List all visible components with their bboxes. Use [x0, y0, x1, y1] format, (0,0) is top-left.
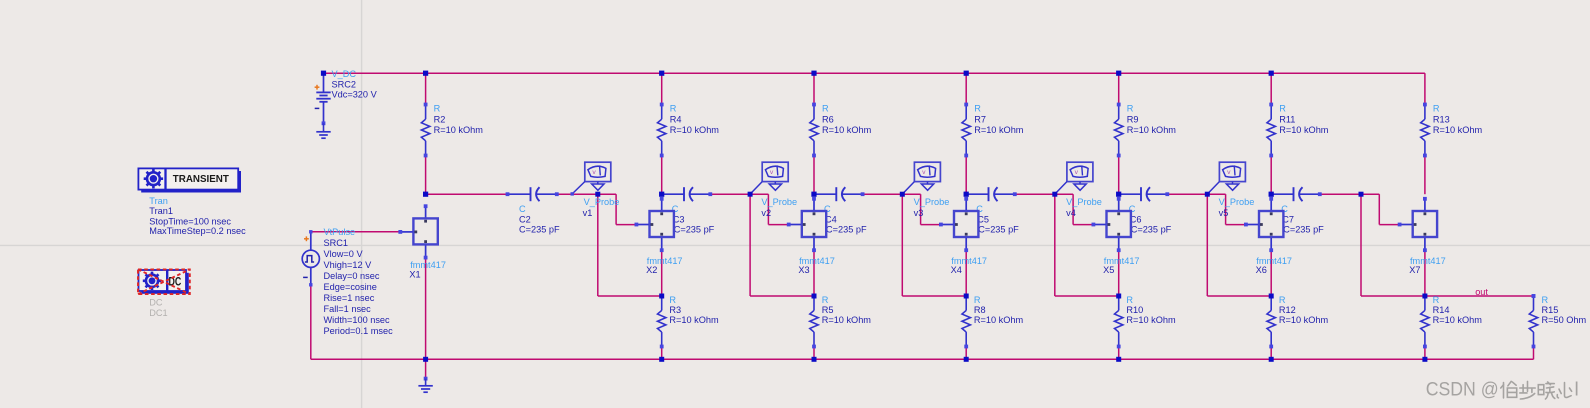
- transistor X3 (fmmt417): [787, 197, 826, 252]
- label fmmt417 X2: [646, 256, 682, 275]
- svg-text:R: R: [669, 295, 676, 305]
- svg-text:R=10 kOhm: R=10 kOhm: [822, 315, 872, 325]
- label fmmt417 X3: [798, 256, 834, 275]
- sheet boundary horizontal line: [0, 244, 1590, 246]
- svg-text:R12: R12: [1279, 305, 1296, 315]
- wire X5 emitter column: [1118, 250, 1120, 359]
- wire probe node to X2 base jog: [598, 194, 637, 224]
- ground below SRC2: [316, 123, 330, 138]
- resistor R14: [1421, 294, 1483, 348]
- svg-text:X6: X6: [1256, 265, 1267, 275]
- wire probe node to X4 base jog: [902, 194, 941, 224]
- transistor X5 (fmmt417): [1092, 197, 1131, 252]
- svg-text:C=235 pF: C=235 pF: [674, 225, 715, 235]
- svg-text:C=235 pF: C=235 pF: [978, 225, 1019, 235]
- voltage probe v3: [902, 162, 949, 218]
- svg-text:R10: R10: [1126, 305, 1143, 315]
- wire C2 to V_Probe v1 node: [557, 193, 598, 195]
- svg-text:R2: R2: [434, 114, 446, 124]
- resistor R7: [962, 103, 1024, 158]
- wire probe v6 node down to X7 emitter junction: [1361, 194, 1425, 296]
- svg-text:C=235 pF: C=235 pF: [826, 225, 867, 235]
- node top rail at SRC2: [321, 71, 326, 76]
- svg-text:TRANSIENT: TRANSIENT: [173, 174, 229, 185]
- wire out net to R15: [1425, 296, 1534, 359]
- node rail junctions: [423, 71, 1274, 76]
- svg-text:R=50 Ohm: R=50 Ohm: [1542, 315, 1587, 325]
- svg-text:R6: R6: [822, 114, 834, 124]
- voltage probe v2: [750, 162, 797, 218]
- svg-text:Rise=1 nsec: Rise=1 nsec: [324, 293, 375, 303]
- simulation controller DC (DC1, deactivated): [138, 269, 190, 317]
- svg-text:V_Probe: V_Probe: [1219, 197, 1255, 207]
- wire top supply rail: [324, 73, 1425, 104]
- svg-text:R: R: [1279, 295, 1286, 305]
- resistor R9: [1115, 103, 1177, 158]
- resistor R2: [421, 103, 483, 158]
- node emitter junctions: [659, 294, 1535, 299]
- capacitor C5: [964, 187, 1020, 234]
- svg-text:v3: v3: [914, 208, 924, 218]
- svg-text:VtPulse: VtPulse: [324, 227, 356, 237]
- svg-text:V_Probe: V_Probe: [1066, 197, 1102, 207]
- wire X1 collector to C2: [426, 193, 508, 195]
- svg-text:R7: R7: [974, 114, 986, 124]
- svg-text:Edge=cosine: Edge=cosine: [324, 282, 377, 292]
- label fmmt417 X5: [1103, 256, 1139, 275]
- transistor X1 (fmmt417): [398, 204, 437, 259]
- wire probe v2 node down to X3 emitter junction: [750, 194, 814, 296]
- resistor R13: [1421, 103, 1483, 158]
- capacitor C7: [1269, 187, 1325, 234]
- wire C4 to probe v3 node: [863, 193, 903, 195]
- svg-text:v4: v4: [1066, 208, 1076, 218]
- transistor X7 (fmmt417): [1398, 197, 1437, 252]
- wire probe node to X5 base jog: [1055, 194, 1094, 224]
- DC voltage source SRC2 (V_DC): [315, 69, 378, 125]
- svg-text:R=10 kOhm: R=10 kOhm: [669, 315, 719, 325]
- svg-text:R: R: [670, 104, 677, 114]
- svg-text:X7: X7: [1409, 265, 1420, 275]
- svg-text:X5: X5: [1103, 265, 1114, 275]
- svg-text:C2: C2: [519, 215, 531, 225]
- resistor R15: [1529, 294, 1586, 348]
- wire probe v5 node down to X6 emitter junction: [1207, 194, 1271, 296]
- transistor X6 (fmmt417): [1244, 197, 1283, 252]
- wire probe node to X3 base jog: [750, 194, 789, 224]
- svg-text:R13: R13: [1433, 114, 1450, 124]
- wire R top column stage 1: [425, 73, 427, 194]
- wire VtPulse minus to ground rail: [310, 285, 312, 360]
- svg-text:C=235 pF: C=235 pF: [1131, 225, 1172, 235]
- wire probe node to X6 base jog: [1207, 194, 1246, 224]
- svg-text:R: R: [1127, 104, 1134, 114]
- node collector junctions: [423, 192, 1274, 197]
- wire bottom ground rail: [311, 358, 1534, 360]
- svg-text:Tran1: Tran1: [149, 206, 173, 216]
- svg-text:R=10 kOhm: R=10 kOhm: [434, 125, 484, 135]
- svg-text:R: R: [1542, 295, 1549, 305]
- svg-text:R11: R11: [1279, 114, 1295, 124]
- pulse source SRC1 (VtPulse): [302, 227, 393, 336]
- svg-text:R4: R4: [670, 114, 682, 124]
- svg-text:R: R: [1433, 295, 1440, 305]
- svg-text:R=10 kOhm: R=10 kOhm: [1126, 315, 1176, 325]
- wire probe v3 node down to X4 emitter junction: [902, 194, 966, 296]
- svg-text:Vlow=0 V: Vlow=0 V: [324, 249, 364, 259]
- svg-text:R: R: [1126, 295, 1133, 305]
- wire C6 to probe v5 node: [1167, 193, 1207, 195]
- svg-text:v2: v2: [761, 208, 771, 218]
- svg-text:R=10 kOhm: R=10 kOhm: [1279, 315, 1329, 325]
- wire R top column stage 7: [1424, 156, 1426, 195]
- capacitor C4: [811, 187, 867, 234]
- svg-text:R: R: [974, 104, 981, 114]
- svg-text:R=10 kOhm: R=10 kOhm: [1127, 125, 1177, 135]
- ground below X1: [418, 377, 432, 393]
- wire R top column stage 4: [965, 73, 967, 194]
- svg-text:v: v: [770, 169, 774, 176]
- resistor R10: [1115, 294, 1177, 348]
- transistor X2 (fmmt417): [635, 197, 674, 252]
- svg-text:V_DC: V_DC: [332, 69, 357, 79]
- svg-text:V_Probe: V_Probe: [761, 197, 797, 207]
- node probe junctions: [595, 192, 1363, 197]
- svg-text:v5: v5: [1219, 208, 1229, 218]
- svg-text:X2: X2: [646, 265, 657, 275]
- svg-text:Vdc=320 V: Vdc=320 V: [332, 90, 378, 100]
- wire R top column stage 3: [813, 73, 815, 194]
- svg-text:R=10 kOhm: R=10 kOhm: [1433, 315, 1483, 325]
- svg-text:Width=100 nsec: Width=100 nsec: [324, 315, 391, 325]
- wire X6 emitter column: [1270, 250, 1272, 359]
- svg-text:R: R: [822, 104, 829, 114]
- wire C7 to probe v6 node: [1320, 193, 1361, 195]
- resistor R12: [1267, 294, 1329, 348]
- wire R top column stage 2: [661, 73, 663, 194]
- resistor R6: [810, 103, 872, 158]
- transistor X4 (fmmt417): [939, 197, 978, 252]
- label fmmt417 X4: [951, 256, 987, 275]
- wire probe v1 node down to X2 emitter junction: [598, 194, 662, 296]
- svg-text:Tran: Tran: [149, 196, 168, 206]
- svg-text:l: l: [1575, 380, 1579, 401]
- wire X7 emitter column: [1424, 250, 1426, 359]
- svg-text:X3: X3: [798, 265, 809, 275]
- node ground rail junctions: [423, 357, 1427, 362]
- wire C3 to probe v2 node: [710, 193, 750, 195]
- resistor R11: [1267, 103, 1329, 158]
- svg-text:SRC2: SRC2: [332, 79, 357, 89]
- svg-text:R=10 kOhm: R=10 kOhm: [670, 125, 720, 135]
- wire ground rail to X1 ground symbol: [425, 359, 427, 378]
- svg-text:R=10 kOhm: R=10 kOhm: [974, 315, 1024, 325]
- svg-text:out: out: [1475, 287, 1488, 297]
- wire X2 emitter column: [661, 250, 663, 359]
- svg-text:R3: R3: [669, 305, 681, 315]
- sheet boundary vertical line: [361, 0, 363, 408]
- svg-text:v: v: [1227, 169, 1231, 176]
- capacitor C3: [659, 187, 715, 234]
- svg-text:R15: R15: [1542, 305, 1559, 315]
- voltage probe v4: [1055, 162, 1102, 218]
- svg-text:CSDN @: CSDN @: [1426, 380, 1499, 401]
- svg-text:X1: X1: [409, 270, 420, 280]
- wire X4 emitter column: [965, 250, 967, 359]
- svg-text:DC1: DC1: [149, 308, 167, 318]
- wire probe node to X7 base jog: [1361, 194, 1400, 224]
- capacitor C6: [1116, 187, 1172, 234]
- simulation controller TRANSIENT (Tran1): [138, 168, 246, 235]
- svg-text:v: v: [592, 169, 596, 176]
- svg-text:C=235 pF: C=235 pF: [1283, 225, 1324, 235]
- svg-text:v: v: [1075, 169, 1079, 176]
- svg-text:R: R: [1433, 104, 1440, 114]
- capacitor C2: [506, 187, 560, 234]
- svg-text:C: C: [519, 204, 526, 214]
- svg-text:MaxTimeStep=0.2 nsec: MaxTimeStep=0.2 nsec: [149, 226, 246, 236]
- voltage probe v5: [1207, 162, 1254, 218]
- svg-text:R: R: [822, 295, 829, 305]
- svg-text:SRC1: SRC1: [324, 238, 349, 248]
- voltage probe v1: [571, 162, 620, 218]
- wire R top column stage 6: [1270, 73, 1272, 194]
- resistor R4: [658, 103, 720, 158]
- svg-text:R=10 kOhm: R=10 kOhm: [1279, 125, 1329, 135]
- svg-text:R: R: [974, 295, 981, 305]
- svg-text:R: R: [434, 104, 441, 114]
- svg-text:Period=0.1 msec: Period=0.1 msec: [324, 326, 394, 336]
- svg-text:R=10 kOhm: R=10 kOhm: [1433, 125, 1483, 135]
- label fmmt417 X1: [409, 260, 446, 279]
- svg-text:R: R: [1279, 104, 1286, 114]
- wire R top column stage 5: [1118, 73, 1120, 194]
- svg-text:R9: R9: [1127, 114, 1139, 124]
- svg-text:Delay=0 nsec: Delay=0 nsec: [324, 271, 380, 281]
- resistor R8: [962, 294, 1024, 348]
- svg-text:v: v: [922, 169, 926, 176]
- wire X1 emitter to ground rail: [425, 258, 427, 360]
- svg-text:R5: R5: [822, 305, 834, 315]
- svg-text:R=10 kOhm: R=10 kOhm: [974, 125, 1024, 135]
- watermark CSDN: [1426, 380, 1579, 401]
- svg-text:R14: R14: [1433, 305, 1450, 315]
- svg-text:Fall=1 nsec: Fall=1 nsec: [324, 304, 372, 314]
- resistor R5: [810, 294, 872, 348]
- svg-text:R8: R8: [974, 305, 986, 315]
- wire VtPulse to X1 base: [311, 231, 400, 233]
- wire probe v4 node down to X5 emitter junction: [1055, 194, 1119, 296]
- wire C5 to probe v4 node: [1015, 193, 1055, 195]
- svg-text:V_Probe: V_Probe: [584, 197, 620, 207]
- label fmmt417 X7: [1409, 256, 1445, 275]
- svg-text:Vhigh=12 V: Vhigh=12 V: [324, 260, 373, 270]
- svg-text:X4: X4: [951, 265, 962, 275]
- svg-text:V_Probe: V_Probe: [914, 197, 950, 207]
- svg-text:C=235 pF: C=235 pF: [519, 225, 560, 235]
- resistor R3: [658, 294, 720, 348]
- svg-text:DC: DC: [149, 298, 163, 308]
- svg-text:R=10 kOhm: R=10 kOhm: [822, 125, 872, 135]
- label fmmt417 X6: [1256, 256, 1292, 275]
- wire X3 emitter column: [813, 250, 815, 359]
- svg-text:v1: v1: [583, 208, 593, 218]
